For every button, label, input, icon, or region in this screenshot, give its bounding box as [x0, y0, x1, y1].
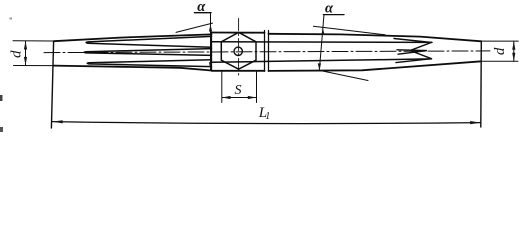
svg-text:d: d — [9, 50, 25, 58]
svg-text:α: α — [325, 0, 334, 16]
svg-text:d: d — [492, 47, 508, 55]
svg-text:S: S — [235, 83, 242, 98]
svg-text:1: 1 — [265, 111, 270, 122]
svg-text:α: α — [197, 0, 206, 15]
